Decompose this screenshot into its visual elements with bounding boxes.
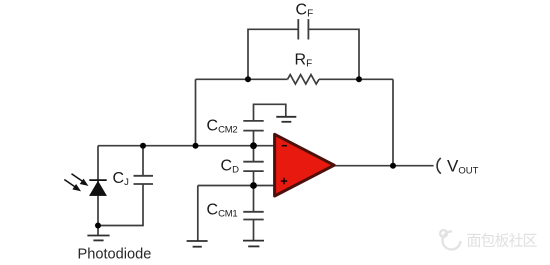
- wire bus CD to CCM1: [253, 171, 255, 212]
- svg-text:面包板社区: 面包板社区: [467, 232, 538, 250]
- capacitor CD: [243, 162, 263, 171]
- wire noninverting leg down: [197, 186, 199, 242]
- svg-text:CCM1: CCM1: [207, 202, 238, 220]
- wire RF line left: [196, 78, 288, 80]
- node dot feedback left: [193, 143, 199, 149]
- op-amp minus pin mark: [282, 145, 287, 147]
- light arrow lower: [64, 180, 79, 191]
- node dot photodiode bottom: [95, 223, 101, 229]
- wire feedback left leg: [195, 79, 197, 145]
- capacitor CJ: [134, 176, 154, 184]
- node dot CJ top: [140, 143, 146, 149]
- svg-text:RF: RF: [295, 52, 313, 70]
- svg-text:CD: CD: [221, 158, 240, 176]
- node dot CF left on RF line: [245, 76, 251, 82]
- wire photodiode branch vertical: [97, 146, 99, 226]
- wire photodiode ground stub: [97, 226, 99, 236]
- wire bus CCM1 to ground: [253, 220, 255, 241]
- svg-text:VOUT: VOUT: [447, 157, 479, 177]
- wire output line: [334, 165, 434, 167]
- node dot CF right on RF line: [356, 76, 362, 82]
- capacitor CF: [298, 19, 308, 39]
- ground photodiode: [87, 236, 109, 241]
- light arrow upper: [72, 174, 87, 185]
- wire node line inverting input: [98, 145, 275, 147]
- node dot bus noninverting: [250, 182, 257, 189]
- svg-text:Photodiode: Photodiode: [78, 247, 152, 263]
- wire bottom connector photodiode to CJ: [98, 184, 143, 226]
- wire bus top hook to ground: [254, 104, 286, 121]
- wire CJ top leg: [142, 146, 144, 176]
- node dot output: [390, 163, 396, 169]
- wire noninverting input line: [198, 185, 275, 187]
- watermark logo: [440, 230, 460, 249]
- output open terminal: [437, 158, 441, 174]
- svg-text:CJ: CJ: [113, 170, 130, 188]
- wire bus CCM2 to CD: [253, 131, 255, 162]
- op-amp plus pin mark: [281, 178, 287, 184]
- resistor RF: [288, 75, 320, 84]
- capacitor CCM2: [243, 121, 263, 131]
- wire feedback right leg: [392, 79, 394, 165]
- svg-text:CCM2: CCM2: [207, 118, 238, 136]
- ground top right: [276, 117, 296, 122]
- svg-text:CF: CF: [296, 2, 314, 20]
- photodiode D1: [89, 180, 106, 196]
- wire CF loop right: [308, 29, 359, 79]
- wire CF loop left: [248, 29, 298, 79]
- node dot bus inverting: [250, 142, 257, 149]
- ground bus bottom: [243, 241, 264, 247]
- capacitor CCM1: [243, 212, 263, 220]
- ground noninverting: [187, 241, 208, 247]
- op-amp U1: [275, 134, 335, 196]
- wire RF line right: [319, 78, 393, 80]
